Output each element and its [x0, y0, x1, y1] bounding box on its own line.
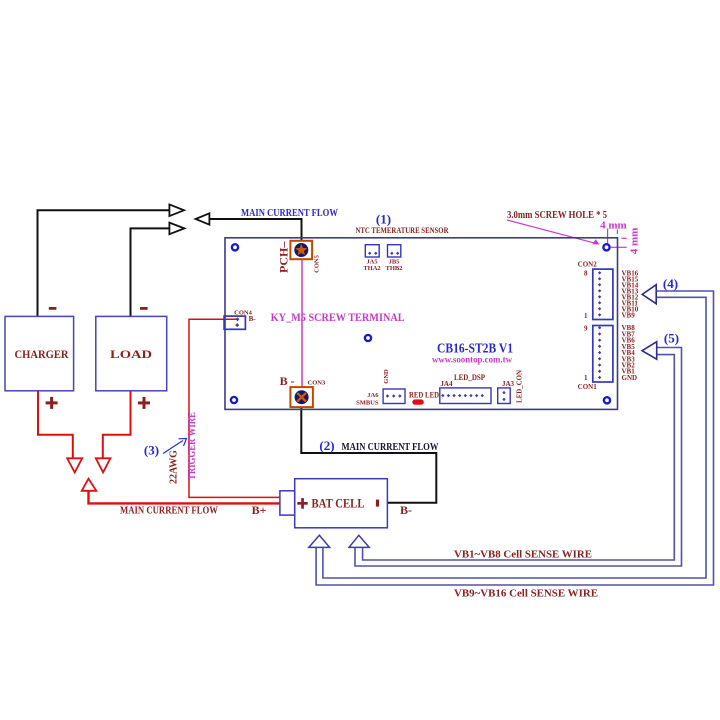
svg-text:JA6: JA6 [367, 392, 379, 399]
svg-text:1: 1 [584, 312, 588, 320]
svg-text:THB2: THB2 [386, 265, 403, 272]
svg-text:B-: B- [249, 315, 257, 323]
svg-text:TRIGGER WIRE: TRIGGER WIRE [187, 412, 198, 480]
svg-text:GND: GND [383, 369, 390, 384]
svg-text:BAT CELL: BAT CELL [312, 496, 365, 511]
svg-text:www.soontop.com.tw: www.soontop.com.tw [432, 355, 512, 365]
svg-text:KY_M5 SCREW TERMINAL: KY_M5 SCREW TERMINAL [271, 310, 405, 324]
svg-text:JA3: JA3 [502, 380, 515, 388]
svg-text:(2): (2) [319, 438, 334, 453]
svg-text:JA4: JA4 [440, 380, 453, 388]
svg-text:VB9: VB9 [622, 311, 636, 319]
svg-text:4 mm: 4 mm [600, 220, 627, 232]
svg-text:9: 9 [584, 325, 588, 333]
svg-text:22AWG: 22AWG [169, 450, 180, 484]
svg-text:MAIN CURRENT FLOW: MAIN CURRENT FLOW [120, 506, 218, 517]
svg-text:CB16-ST2B V1: CB16-ST2B V1 [437, 341, 513, 356]
svg-text:(5): (5) [664, 331, 679, 346]
svg-text:MAIN CURRENT FLOW: MAIN CURRENT FLOW [342, 441, 439, 453]
svg-text:B -: B - [280, 374, 295, 388]
svg-text:CHARGER: CHARGER [15, 349, 70, 361]
svg-text:CON1: CON1 [578, 383, 598, 391]
svg-text:THA2: THA2 [363, 265, 380, 272]
svg-text:(1): (1) [376, 212, 391, 227]
svg-text:4 mm: 4 mm [629, 228, 641, 255]
svg-text:8: 8 [584, 269, 588, 277]
svg-text:SMBUS: SMBUS [356, 400, 379, 407]
svg-text:VB1~VB8 Cell SENSE WIRE: VB1~VB8 Cell SENSE WIRE [454, 550, 592, 561]
svg-text:PCH–: PCH– [277, 241, 291, 273]
svg-text:CON2: CON2 [578, 261, 598, 269]
svg-text:B+: B+ [252, 503, 267, 517]
svg-text:CON5: CON5 [314, 254, 321, 272]
svg-text:NTC TEMERATURE SENSOR: NTC TEMERATURE SENSOR [356, 226, 449, 235]
svg-text:B-: B- [400, 503, 412, 517]
svg-text:GND: GND [622, 374, 638, 382]
svg-text:RED LED: RED LED [409, 391, 439, 400]
svg-text:1: 1 [584, 374, 588, 382]
svg-text:VB9~VB16 Cell SENSE WIRE: VB9~VB16 Cell SENSE WIRE [454, 589, 598, 600]
svg-text:(4): (4) [663, 276, 678, 291]
svg-text:LED_DSP: LED_DSP [454, 373, 485, 382]
svg-text:LED_CON: LED_CON [516, 370, 524, 403]
svg-text:MAIN CURRENT FLOW: MAIN CURRENT FLOW [241, 208, 338, 219]
svg-text:(3): (3) [144, 443, 159, 458]
svg-text:3.0mm SCREW HOLE * 5: 3.0mm SCREW HOLE * 5 [507, 210, 607, 221]
svg-text:CON3: CON3 [308, 380, 326, 387]
svg-text:LOAD: LOAD [110, 349, 152, 361]
